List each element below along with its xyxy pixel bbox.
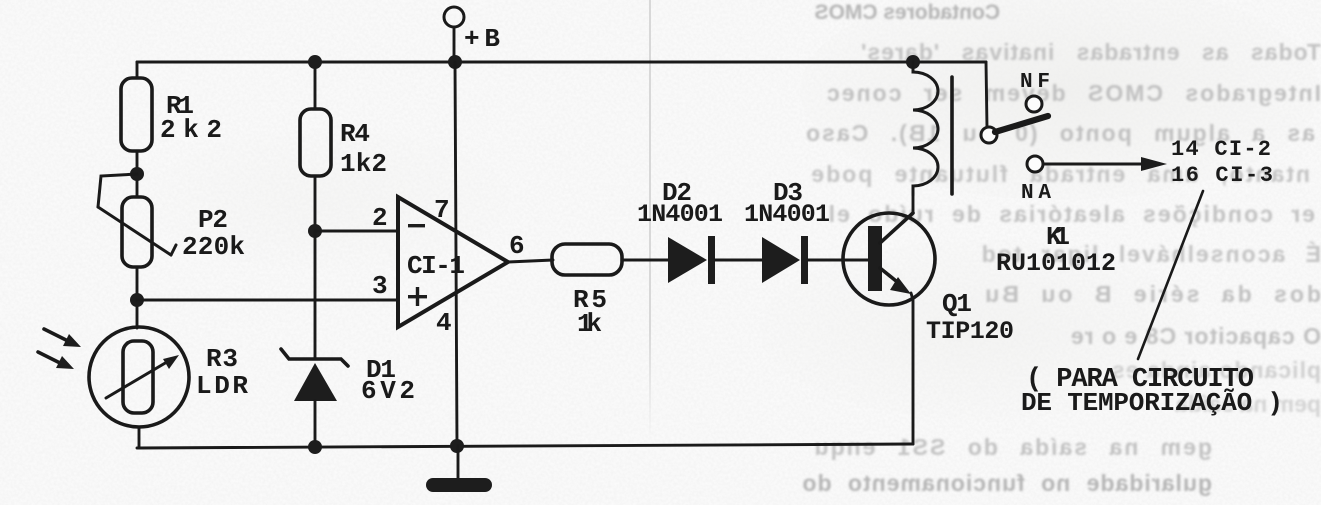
node junction R1/P2 — [130, 167, 144, 181]
wire node to D1 — [314, 231, 317, 359]
relay switch arm — [995, 116, 1048, 132]
zener diode D1 — [281, 349, 348, 448]
svg-text:1N4001: 1N4001 — [744, 200, 830, 229]
svg-text:3: 3 — [372, 271, 388, 301]
svg-text:6: 6 — [509, 231, 525, 261]
resistor R4 — [300, 109, 331, 176]
label NA — [1021, 182, 1051, 205]
wire LDR bottom — [138, 427, 141, 448]
wire R4 column top — [314, 62, 317, 109]
node junction P2/LDR/pin3 — [130, 293, 144, 307]
label 16 CI-3 — [1171, 163, 1273, 188]
svg-text:K1: K1 — [1046, 222, 1070, 252]
contact NA — [1027, 156, 1043, 172]
relay K1 coil — [913, 62, 952, 195]
wire op-amp output to R5 — [508, 260, 553, 262]
svg-text:220k: 220k — [182, 232, 245, 262]
wire to op-amp pin 3 — [137, 299, 398, 302]
svg-text:7: 7 — [434, 195, 450, 225]
label op-amp pins and name — [372, 195, 525, 338]
contact NF — [1026, 96, 1042, 112]
svg-text:2k2: 2k2 — [160, 115, 222, 145]
svg-text:16 CI-3: 16 CI-3 — [1171, 163, 1273, 188]
ground — [426, 446, 492, 492]
label Q1 value — [926, 289, 1014, 346]
wire to op-amp pin 2 — [315, 230, 398, 233]
bleed-through mirrored text from reverse page — [808, 1, 1000, 25]
wire R5 to D2 — [622, 259, 668, 262]
label D1 value — [361, 355, 415, 406]
faint page column rule — [649, 0, 651, 440]
light arrows into LDR — [38, 329, 81, 369]
arrow NA to CI inputs — [1044, 157, 1167, 171]
label D2 value — [637, 178, 723, 229]
wire P2 to LDR — [136, 267, 139, 328]
label +B — [464, 24, 500, 54]
svg-text:TIP120: TIP120 — [926, 317, 1014, 346]
label P2 value — [182, 205, 245, 262]
svg-text:R4: R4 — [340, 119, 370, 149]
pointer line to timing-circuit note — [1138, 191, 1203, 359]
wire D2 to D3 — [715, 259, 762, 262]
node junction D1/bottom rail — [308, 440, 322, 454]
label 14 CI-2 — [1171, 137, 1271, 162]
label R3 LDR — [196, 344, 248, 401]
svg-text:4: 4 — [436, 308, 452, 338]
svg-text:+B: +B — [464, 24, 500, 54]
label R1 value — [160, 91, 222, 145]
resistor R1 — [121, 78, 152, 151]
svg-text:CI-1: CI-1 — [407, 251, 465, 281]
svg-text:6V2: 6V2 — [361, 376, 415, 406]
label D3 value — [744, 178, 830, 229]
wire D3 to Q1 base — [808, 259, 868, 262]
label NF — [1020, 71, 1050, 94]
svg-text:DE TEMPORIZAÇÃO ): DE TEMPORIZAÇÃO ) — [1021, 388, 1283, 418]
node junction top rail / relay — [906, 55, 920, 69]
label R4 value — [340, 119, 387, 179]
resistor R5 — [552, 244, 622, 275]
wire Q1 emitter down to bottom rail — [911, 293, 913, 444]
node junction top rail / +B — [448, 55, 462, 69]
potentiometer P2 — [98, 174, 176, 267]
svg-text:1k: 1k — [577, 309, 602, 339]
relay switch common contact — [981, 127, 997, 143]
LDR R3 — [89, 327, 189, 427]
svg-text:Q1: Q1 — [942, 289, 972, 319]
diode D3 — [762, 236, 808, 284]
svg-text:P2: P2 — [198, 205, 228, 235]
label timing-circuit note — [1021, 365, 1283, 418]
wire Q1 collector up to relay coil — [912, 192, 915, 213]
transistor Q1 — [843, 213, 935, 305]
label K1 value — [996, 222, 1116, 278]
svg-text:LDR: LDR — [196, 371, 248, 401]
diode D2 — [668, 236, 715, 284]
svg-text:1N4001: 1N4001 — [637, 200, 723, 229]
wire top rail to switch common — [986, 62, 987, 128]
node junction supply line / bottom rail — [450, 439, 464, 453]
+B supply terminal — [444, 7, 464, 62]
wire bottom rail — [137, 444, 913, 448]
wire supply line through op-amp (pin7/pin4) — [455, 62, 457, 446]
wire R4 to node — [314, 176, 317, 231]
svg-text:14 CI-2: 14 CI-2 — [1171, 137, 1271, 162]
svg-text:RU101012: RU101012 — [996, 249, 1116, 278]
node junction R4/D1/pin2 — [308, 224, 322, 238]
svg-text:NA: NA — [1021, 182, 1051, 205]
svg-text:R3: R3 — [206, 344, 238, 374]
wire R1 to P2 — [136, 151, 139, 197]
svg-text:1k2: 1k2 — [340, 149, 387, 179]
label R5 value — [573, 285, 607, 339]
node junction top rail / R4 — [308, 55, 322, 69]
wire left column top — [136, 62, 139, 78]
op-amp U1 CI-1 — [398, 197, 508, 327]
svg-text:NF: NF — [1020, 71, 1050, 94]
svg-text:2: 2 — [372, 203, 388, 233]
wire top rail — [137, 61, 986, 64]
